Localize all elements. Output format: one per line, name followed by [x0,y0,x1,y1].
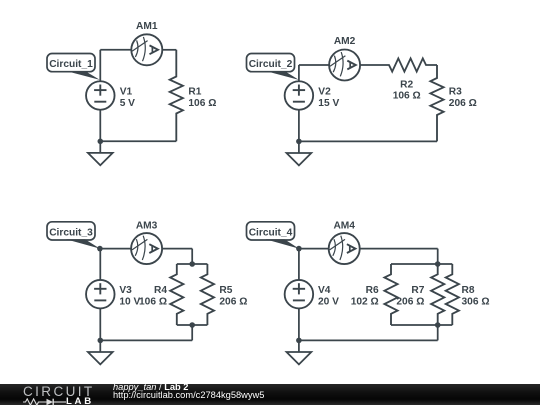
svg-text:AM1: AM1 [136,21,158,32]
svg-text:5 V: 5 V [120,98,135,109]
svg-text:R8: R8 [462,285,475,296]
svg-text:R4: R4 [154,285,167,296]
svg-text:306 Ω: 306 Ω [462,297,490,308]
svg-text:R6: R6 [366,285,379,296]
svg-text:AM2: AM2 [334,36,356,47]
svg-text:106 Ω: 106 Ω [139,297,167,308]
svg-text:AM3: AM3 [136,220,158,231]
svg-text:206 Ω: 206 Ω [396,297,424,308]
svg-text:106 Ω: 106 Ω [188,98,216,109]
svg-text:V1: V1 [120,86,133,97]
svg-text:R7: R7 [411,285,424,296]
svg-text:10 V: 10 V [119,297,140,308]
svg-text:V4: V4 [318,285,331,296]
svg-text:Circuit_2: Circuit_2 [249,59,293,70]
svg-text:R1: R1 [188,86,201,97]
svg-text:R3: R3 [449,86,462,97]
svg-text:V3: V3 [119,285,132,296]
svg-text:102 Ω: 102 Ω [351,297,379,308]
svg-text:V2: V2 [318,86,331,97]
svg-text:R2: R2 [400,79,413,90]
svg-text:106 Ω: 106 Ω [393,91,421,102]
svg-text:206 Ω: 206 Ω [449,98,477,109]
svg-text:Circuit_4: Circuit_4 [249,227,293,238]
svg-text:Circuit_3: Circuit_3 [49,227,93,238]
svg-text:AM4: AM4 [333,220,355,231]
svg-text:Circuit_1: Circuit_1 [49,59,93,70]
svg-text:15 V: 15 V [318,98,339,109]
svg-text:20 V: 20 V [318,297,339,308]
svg-text:R5: R5 [219,285,232,296]
svg-text:206 Ω: 206 Ω [219,297,247,308]
